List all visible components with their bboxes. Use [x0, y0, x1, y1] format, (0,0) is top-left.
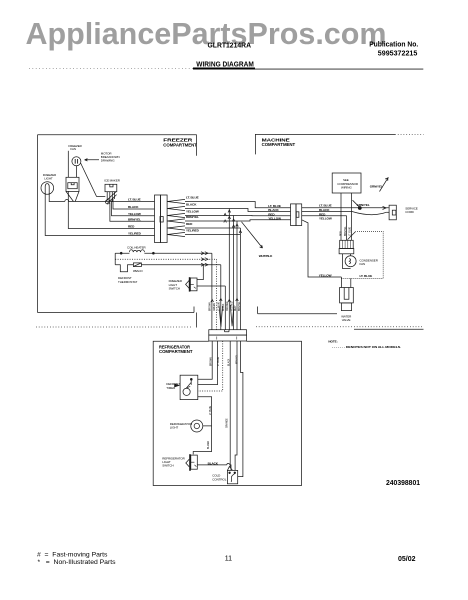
svg-text:BRN/YEL: BRN/YEL — [239, 301, 241, 311]
refrigerator drop wire labels — [208, 354, 238, 449]
coil heater green wire with element — [115, 252, 202, 254]
freezer fan motor — [72, 157, 81, 166]
svg-text:YELLOW: YELLOW — [186, 210, 199, 214]
svg-text:LT. BLUE: LT. BLUE — [186, 196, 199, 200]
svg-text:LT. BLUE: LT. BLUE — [268, 204, 281, 208]
refrigerator light bulb — [191, 420, 203, 432]
long plug V connectors — [219, 306, 223, 327]
coil heater left lead — [114, 253, 116, 265]
refrigerator compartment box — [153, 341, 301, 485]
svg-text:DRAWING: DRAWING — [101, 159, 115, 163]
svg-text:YELLOW: YELLOW — [319, 274, 332, 278]
wire ice maker to black bus — [113, 199, 155, 210]
wire freezer light switch to drop — [197, 286, 225, 330]
sec compressor wiring box — [332, 173, 361, 193]
freezer connector block — [155, 195, 161, 243]
defrost thermostat fuse — [133, 263, 141, 267]
wht/blk pointer arrow — [242, 222, 263, 248]
evaporator fan housing — [66, 177, 79, 191]
wire sec box right lead down — [351, 193, 353, 240]
svg-text:LT. BLUE: LT. BLUE — [128, 198, 141, 202]
svg-text:BL-RED: BL-RED — [208, 440, 210, 449]
freezer bottom dotted boundary — [36, 326, 191, 328]
wire drop to defrost timer 1 — [198, 341, 212, 379]
wire fan motor diagonal to ice maker — [81, 163, 106, 196]
wire drop to defrost timer 2 — [198, 341, 218, 385]
svg-text:LIGHT: LIGHT — [44, 177, 53, 181]
svg-text:#BACO: #BACO — [133, 269, 143, 273]
wire switch to cold control — [197, 463, 231, 470]
wire red spur — [185, 227, 240, 229]
svg-text:COMPARTMENT: COMPARTMENT — [163, 142, 197, 147]
service cord plug arrowhead — [383, 206, 387, 209]
wire relay to dashed box — [348, 232, 356, 240]
wire light to switch — [193, 426, 211, 455]
coil heater lt.blue wire with defrost thermostat — [115, 265, 202, 272]
wire timer to refrigerator light — [198, 397, 212, 426]
svg-text:WIRING DIAGRAM: WIRING DIAGRAM — [196, 60, 254, 69]
svg-text:FAN: FAN — [70, 147, 76, 151]
refrigerator light switch — [189, 454, 191, 471]
wire lt.blue freezer to machine connector — [185, 202, 291, 208]
junction chevrons above refrigerator connector — [211, 299, 238, 303]
condenser fan motor — [343, 254, 351, 269]
wire fan housing to red bus — [68, 191, 154, 228]
ice maker pin loop — [106, 200, 110, 204]
wire blue to drop dashed — [202, 259, 217, 330]
cold control — [227, 470, 237, 483]
dashed water valve routing box — [341, 232, 383, 279]
svg-text:240398801: 240398801 — [386, 478, 420, 487]
wire green to drop — [202, 253, 212, 330]
connector plug arrow 1 — [167, 199, 185, 203]
compressor vertical wire labels — [341, 226, 352, 236]
wire drop B to refrigerator — [233, 216, 235, 330]
freezer light bulb — [41, 182, 54, 195]
svg-text:BRN/YEL: BRN/YEL — [345, 226, 347, 236]
svg-text:CORD: CORD — [405, 210, 414, 214]
header rule thick underline under title — [193, 68, 255, 70]
svg-text:SWITCH: SWITCH — [169, 286, 180, 290]
svg-text:RED: RED — [186, 222, 193, 226]
machine bottom border — [258, 307, 337, 314]
freezer light switch — [189, 277, 191, 291]
header rule thin right segment — [255, 68, 423, 70]
arrow to fan motor — [85, 159, 100, 161]
wire drop C to refrigerator — [236, 221, 238, 330]
machine bottom dotted boundary — [256, 326, 424, 328]
svg-text:RED: RED — [128, 225, 135, 229]
svg-text:FAN: FAN — [360, 262, 366, 266]
water valve — [340, 288, 354, 303]
wire freezer light left leg to yel/red bus — [45, 193, 154, 236]
svg-text:CONTROL: CONTROL — [212, 477, 226, 481]
wire freezer light right leg to lt.blue bus — [49, 193, 154, 202]
refrigerator connector block — [209, 330, 247, 335]
fan housing funnel — [66, 191, 79, 201]
svg-text:YELLOW: YELLOW — [128, 212, 141, 216]
connector plug arrow 4 — [167, 219, 185, 223]
wire lt.blue branch to freezer light switch — [197, 265, 203, 280]
wire drop right side to cold control — [238, 341, 243, 477]
svg-text:# = Fast-moving Parts: # = Fast-moving Parts — [37, 552, 108, 559]
svg-text:YEL/RED: YEL/RED — [128, 232, 142, 236]
freezer left border — [37, 135, 39, 313]
svg-text:* = Non-Illustrated Parts: * = Non-Illustrated Parts — [38, 559, 117, 566]
freezer bottom border — [38, 307, 195, 313]
svg-text:LT. BLUE: LT. BLUE — [319, 204, 332, 208]
wire drop to cold control 2 — [235, 341, 237, 470]
svg-text:LT. BLUE: LT. BLUE — [350, 226, 352, 236]
header rule dotted left segment — [29, 68, 193, 70]
svg-text:YELLOW: YELLOW — [268, 217, 281, 221]
coil heater blue wire dashed — [115, 258, 202, 260]
svg-text:COIL HEATER: COIL HEATER — [127, 246, 147, 250]
svg-text:YELLOW: YELLOW — [319, 216, 332, 220]
refrigerator connector vertical labels — [209, 301, 241, 311]
svg-text:ORANGE: ORANGE — [226, 418, 229, 428]
svg-text:YEL/RED: YEL/RED — [186, 229, 200, 233]
svg-text:ICE MAKER: ICE MAKER — [104, 179, 121, 183]
svg-text:GREEN: GREEN — [214, 303, 216, 311]
service cord plug — [389, 205, 396, 220]
svg-text:NOTE:: NOTE: — [328, 339, 337, 343]
wire lt.blue to service cord — [302, 207, 389, 209]
svg-text:GRN/YEL: GRN/YEL — [370, 185, 383, 189]
machine compartment top border dotted end — [395, 133, 424, 135]
compressor overload relay block — [340, 240, 354, 248]
wire lt.blue to drop — [202, 265, 221, 330]
svg-text:BLACK: BLACK — [128, 205, 139, 209]
svg-text:COMPARTMENT: COMPARTMENT — [262, 142, 296, 147]
svg-text:WHT/BLK: WHT/BLK — [259, 254, 273, 258]
svg-text:ORANGE: ORANGE — [226, 301, 229, 311]
wire drop D to refrigerator — [239, 228, 241, 330]
svg-text:LT. BLUE: LT. BLUE — [360, 274, 373, 278]
defrost timer box — [180, 375, 198, 399]
svg-text:RED: RED — [235, 306, 237, 311]
wire drop to cold control 1 — [229, 341, 231, 467]
svg-text:11: 11 — [225, 556, 232, 563]
wire red to compressor — [302, 216, 347, 241]
connector plug arrow 2 — [167, 206, 185, 210]
svg-text:BLACK: BLACK — [186, 203, 197, 207]
machine bottom right solid line — [354, 328, 424, 330]
wire yel/red spur — [185, 234, 240, 236]
svg-text:YEL/RED: YEL/RED — [231, 301, 233, 311]
svg-text:COMPARTMENT: COMPARTMENT — [159, 349, 193, 354]
svg-text:WIRING: WIRING — [341, 185, 352, 189]
svg-text:VALVE: VALVE — [342, 318, 351, 322]
svg-text:Publication No.: Publication No. — [369, 39, 418, 48]
svg-text:SWITCH: SWITCH — [162, 464, 173, 468]
connector plug arrow 3 — [167, 213, 185, 217]
ice maker body — [105, 184, 117, 191]
wire yellow freezer to machine connector — [185, 220, 291, 221]
wire black to service cord prong — [302, 212, 386, 215]
svg-text:THERMOSTAT: THERMOSTAT — [118, 280, 137, 284]
ice maker pins — [107, 192, 114, 202]
machine connector block — [291, 204, 297, 226]
coil wire plug chevrons — [201, 252, 208, 267]
wire red freezer to machine connector — [185, 215, 291, 217]
wire yellow to water valve — [302, 220, 342, 277]
svg-text:5995372215: 5995372215 — [378, 49, 418, 58]
svg-text:LIGHT: LIGHT — [170, 426, 179, 430]
connector plug arrow 5 — [167, 226, 185, 230]
wire drop to defrost timer 3 dashed — [198, 341, 223, 391]
wire black freezer to machine connector — [185, 209, 291, 212]
wire ice maker to brn/yel bus — [110, 203, 155, 222]
svg-text:LT. BLUE: LT. BLUE — [218, 356, 220, 366]
junction chevrons — [224, 210, 242, 233]
machine compartment top border — [255, 134, 395, 154]
wire fan motor stem — [75, 166, 77, 178]
svg-text:AppliancePartsPros.com: AppliancePartsPros.com — [26, 17, 387, 51]
wire ice maker to yellow bus — [112, 201, 155, 216]
wire fan housing left lead — [67, 151, 69, 178]
svg-text:GLRT1214RA: GLRT1214RA — [208, 41, 252, 50]
svg-text:- - - - - - - DENOTES NOT ON: - - - - - - - DENOTES NOT ON ALL MODELS. — [332, 345, 401, 349]
wire sec box left lead down — [340, 193, 342, 240]
freezer compartment top border — [38, 135, 197, 156]
svg-text:RED: RED — [341, 231, 343, 236]
wire drop A to refrigerator — [228, 209, 230, 330]
freezer-refrigerator divider tick — [195, 313, 197, 328]
connector plug arrow 6 — [167, 232, 185, 236]
svg-text:BRN/YEL: BRN/YEL — [128, 217, 141, 221]
water valve leads — [341, 277, 350, 288]
svg-text:05/02: 05/02 — [398, 556, 416, 563]
svg-text:BROWN: BROWN — [209, 302, 211, 311]
